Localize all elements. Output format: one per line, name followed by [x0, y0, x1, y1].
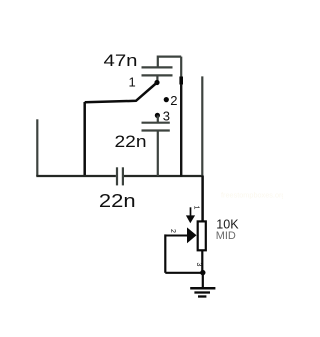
svg-text:2: 2 — [170, 93, 177, 108]
wire wiper to bottom node horizontal — [165, 272, 203, 274]
wire bottom bus left segment — [36, 175, 116, 177]
svg-text:freestompboxes.org: freestompboxes.org — [221, 191, 283, 200]
wire pot bottom lead — [201, 250, 203, 272]
svg-text:1: 1 — [129, 75, 136, 90]
wire C2 bottom lead to bus — [157, 131, 159, 177]
capacitor C2 22n bottom plate — [142, 129, 170, 131]
wire right vertical 1 thick segment — [179, 77, 183, 85]
ground symbol — [190, 288, 215, 296]
wire left vertical black — [83, 102, 86, 177]
wire bottom bus right segment — [124, 175, 203, 177]
switch blade wire to contact 1 — [85, 83, 157, 103]
node junction dot — [200, 270, 205, 275]
svg-text:3: 3 — [195, 262, 202, 266]
svg-text:3: 3 — [163, 109, 170, 124]
wire C1 bottom lead — [156, 75, 158, 82]
capacitor C1 47n top plate — [142, 66, 173, 68]
wire right vertical 1 upper gray — [180, 57, 182, 78]
wire right vertical 2 upper gray — [201, 76, 203, 176]
capacitor C1 47n bottom plate — [142, 74, 173, 76]
wire ground lead — [202, 273, 204, 288]
potentiometer R1 body — [198, 221, 206, 250]
wire right vertical 1 lower black — [180, 84, 182, 177]
capacitor C3 22n right plate — [122, 167, 124, 185]
wiper arrow pin 2 of potentiometer — [165, 227, 196, 243]
capacitor C3 22n left plate — [116, 167, 118, 185]
svg-text:47n: 47n — [104, 51, 138, 70]
node switch contact 2 — [164, 97, 169, 102]
node switch contact 3 — [155, 113, 160, 118]
wire wiper to bottom node vertical — [164, 234, 166, 272]
wire C2 top lead from contact 3 — [157, 115, 159, 122]
svg-text:1: 1 — [192, 206, 199, 210]
svg-text:22n: 22n — [115, 132, 147, 151]
node switch contact 1 — [154, 80, 159, 85]
capacitor C2 22n top plate — [142, 122, 170, 124]
wire top L from C1 to right vertical — [158, 57, 181, 67]
svg-text:2: 2 — [169, 229, 176, 233]
wire left stub vertical — [36, 119, 38, 176]
wire right vertical 2 lower black to potentiometer — [201, 176, 204, 221]
svg-text:22n: 22n — [99, 192, 136, 212]
arrow pin 1 of potentiometer — [186, 207, 195, 223]
svg-text:MID: MID — [216, 230, 236, 242]
